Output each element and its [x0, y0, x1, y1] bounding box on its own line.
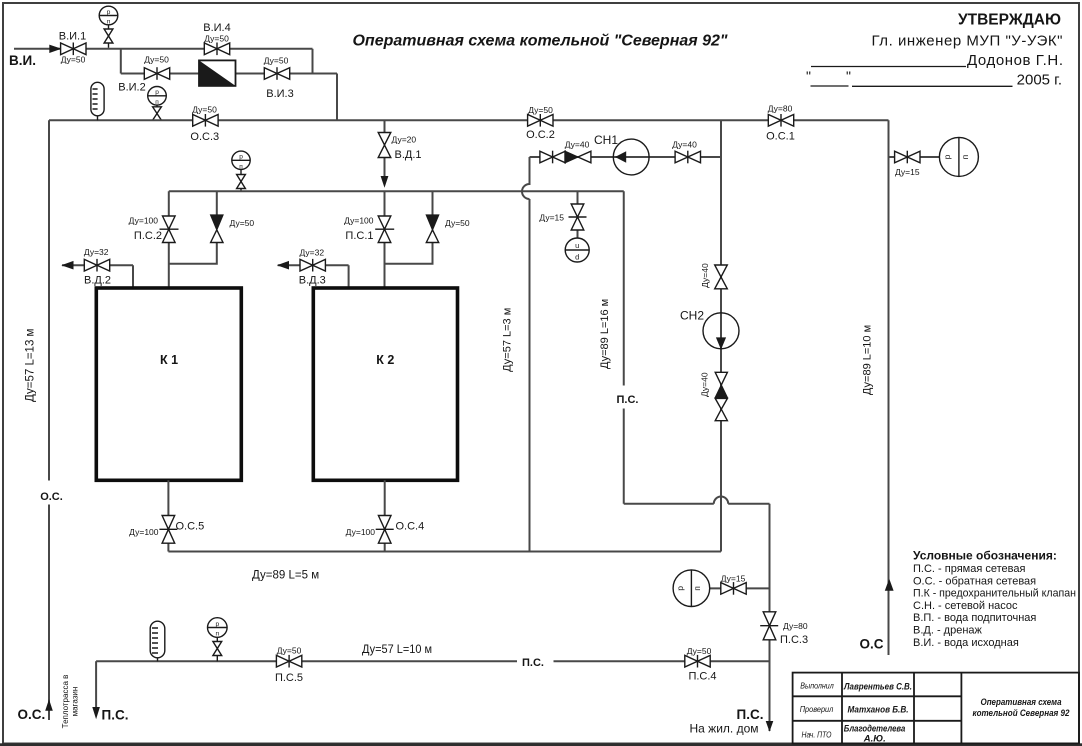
wire П.С. left drop [95, 661, 97, 708]
svg-text:п: п [216, 631, 220, 638]
boiler K2 [313, 288, 457, 480]
svg-text:В.Д. - дренаж: В.Д. - дренаж [913, 625, 983, 637]
pump СН2 [703, 313, 739, 350]
wire СН2 riser [720, 120, 722, 551]
svg-text:П.С. - прямая сетевая: П.С. - прямая сетевая [913, 563, 1025, 575]
svg-text:Ду=50: Ду=50 [277, 646, 302, 656]
svg-text:А.Ю.: А.Ю. [863, 734, 886, 745]
svg-text:Ду=40: Ду=40 [700, 263, 710, 288]
title block [793, 673, 1079, 744]
svg-text:Гл. инженер МУП "У-УЭК": Гл. инженер МУП "У-УЭК" [872, 33, 1063, 50]
svg-text:К 2: К 2 [376, 353, 394, 367]
valve after СН1 [675, 151, 700, 164]
wire boiler top header П.С. [169, 190, 624, 192]
svg-text:Ду=15: Ду=15 [539, 212, 564, 222]
svg-text:О.С: О.С [860, 636, 884, 651]
svg-text:": " [806, 68, 811, 84]
gauge above boiler header [232, 151, 250, 191]
svg-text:Оперативная схема котельной "С: Оперативная схема котельной "Северная 92… [352, 33, 727, 50]
svg-text:В.И.4: В.И.4 [203, 22, 230, 34]
valve Ду=40 below СН2 [715, 398, 727, 420]
svg-text:Условные обозначения:: Условные обозначения: [913, 548, 1057, 562]
svg-text:р: р [215, 621, 219, 628]
valve О.С.4 under K2 [376, 480, 394, 551]
svg-text:Ду=100: Ду=100 [129, 215, 159, 225]
svg-text:Ду=57 L=10 м: Ду=57 L=10 м [362, 642, 432, 656]
gauge u/d [565, 238, 589, 262]
svg-text:В.П. - вода подпиточная: В.П. - вода подпиточная [913, 612, 1036, 624]
svg-text:Ду=50: Ду=50 [687, 646, 712, 656]
flow arrow П.С. left [92, 707, 100, 719]
valve Ду=40 above СН2 [715, 265, 728, 289]
svg-text:р: р [107, 9, 111, 16]
svg-text:Ду=50: Ду=50 [61, 55, 86, 65]
svg-text:u: u [575, 241, 579, 250]
valve П.С.1 on boiler K2 [375, 191, 394, 288]
svg-text:Ду=40: Ду=40 [700, 372, 710, 397]
svg-text:Ду=40: Ду=40 [565, 140, 590, 150]
svg-text:К 1: К 1 [160, 353, 178, 367]
wire П.С. drop with label gap [623, 191, 625, 503]
svg-text:В.Д.3: В.Д.3 [299, 275, 326, 287]
svg-text:Нач. ПТО: Нач. ПТО [802, 730, 832, 739]
svg-text:п: п [107, 19, 111, 26]
flow arrow into В.И.1 [49, 45, 61, 53]
wire right О.С. riser [888, 120, 890, 655]
svg-text:2005 г.: 2005 г. [1017, 72, 1062, 89]
gauge above В.И.1 line [99, 6, 118, 48]
svg-text:Ду=57 L=3 м: Ду=57 L=3 м [502, 308, 514, 372]
svg-text:Ду=89 L=16 м: Ду=89 L=16 м [599, 299, 611, 369]
svg-text:На жил. дом: На жил. дом [690, 722, 759, 736]
svg-text:Ду=50: Ду=50 [192, 104, 217, 114]
svg-text:Ду=100: Ду=100 [346, 527, 376, 537]
wire П.С.3 drop [769, 504, 771, 731]
gauge right (р/п) [939, 137, 978, 176]
svg-text:Ду=100: Ду=100 [129, 527, 159, 537]
flow arrow О.С. right up [885, 579, 894, 591]
svg-text:Проверил: Проверил [800, 705, 834, 714]
svg-text:п: п [960, 154, 970, 159]
valve О.С.2 [528, 114, 553, 127]
wire left О.С. riser (with label gap) [48, 120, 50, 720]
valve Ду=15 right [895, 151, 920, 164]
wire drop x=529.5 with hop over boiler header [522, 157, 529, 552]
svg-text:магазин: магазин [71, 687, 80, 717]
svg-text:П.С.2: П.С.2 [134, 230, 162, 242]
svg-text:Ду=15: Ду=15 [721, 573, 746, 583]
valve П.С.3 [760, 612, 778, 640]
svg-text:В.И.: В.И. [9, 53, 36, 68]
svg-text:УТВЕРЖДАЮ: УТВЕРЖДАЮ [958, 12, 1061, 29]
wire СН1 pump branch [530, 156, 721, 158]
svg-text:Додонов Г.Н.: Додонов Г.Н. [967, 52, 1063, 69]
svg-text:р: р [155, 89, 159, 96]
wire В.И. lower bypass line [121, 73, 337, 75]
svg-text:П.С.: П.С. [617, 394, 639, 406]
svg-text:В.И. - вода исходная: В.И. - вода исходная [913, 637, 1019, 649]
svg-text:СН1: СН1 [594, 133, 618, 147]
wire В.И.4 line drop [312, 49, 314, 74]
safety valve П.К boiler K2 [385, 191, 439, 263]
svg-text:О.С. - обратная сетевая: О.С. - обратная сетевая [913, 575, 1036, 587]
svg-text:Ду=89 L=10 м: Ду=89 L=10 м [862, 325, 874, 395]
svg-text:Выполнил: Выполнил [800, 681, 834, 690]
wire П.С.5 street line (with label gap) [96, 660, 769, 662]
svg-text:": " [846, 68, 851, 84]
svg-text:Ду=80: Ду=80 [768, 104, 793, 114]
svg-text:Ду=50: Ду=50 [230, 218, 255, 228]
svg-text:В.И.1: В.И.1 [59, 31, 86, 43]
check valve below СН2 [715, 372, 727, 397]
gauge on П.С.5 line [208, 618, 228, 662]
svg-text:Ду=50: Ду=50 [445, 218, 470, 228]
check valve before СН1 [565, 151, 591, 163]
valve Ду=15 on gauge branch [721, 582, 746, 595]
svg-text:Ду=80: Ду=80 [783, 621, 808, 631]
svg-text:котельной Северная 92: котельной Северная 92 [973, 708, 1071, 719]
svg-text:Ду=32: Ду=32 [299, 248, 324, 258]
gauge П.С.3 (р/п) [673, 570, 710, 607]
svg-text:Матханов Б.В.: Матханов Б.В. [848, 705, 909, 716]
flow arrow П.С. to town [766, 721, 774, 732]
pump СН1 [613, 139, 649, 175]
valve before СН1 [540, 151, 565, 164]
wire П.С. lower run with hop over СН2 riser [624, 497, 770, 504]
valve П.С.4 [685, 655, 710, 668]
svg-text:Ду=50: Ду=50 [528, 105, 553, 115]
svg-text:р: р [675, 586, 685, 591]
valve В.И.4 [204, 43, 229, 56]
svg-text:П.С.1: П.С.1 [345, 230, 373, 242]
svg-text:п: п [239, 163, 243, 170]
svg-text:О.С.3: О.С.3 [190, 131, 219, 143]
wire В.И. inlet line [14, 48, 313, 50]
filter (mud trap) [199, 60, 236, 86]
valve В.Д.2 drain [61, 259, 133, 289]
boiler K1 [96, 288, 241, 480]
svg-text:п: п [692, 586, 702, 591]
svg-text:п: п [155, 99, 159, 106]
svg-text:П.С.: П.С. [522, 657, 544, 669]
svg-text:Ду=57 L=13 м: Ду=57 L=13 м [25, 328, 37, 402]
svg-text:О.С.: О.С. [18, 707, 46, 722]
thermometer on П.С.5 line [150, 621, 165, 661]
svg-text:В.Д.1: В.Д.1 [395, 149, 422, 161]
svg-text:О.С.2: О.С.2 [526, 129, 555, 141]
wire gauge branch on П.С.3 drop [710, 587, 770, 589]
svg-text:Ду=20: Ду=20 [392, 134, 417, 144]
svg-text:П.К - предохранительный клапан: П.К - предохранительный клапан [913, 588, 1076, 600]
valve Ду=15 instrument drop on header [569, 191, 587, 238]
svg-text:П.С.: П.С. [737, 707, 764, 722]
svg-text:Ду=15: Ду=15 [895, 167, 920, 177]
flow arrow О.С. left up [45, 699, 53, 710]
valve П.С.2 on boiler K1 [160, 191, 179, 288]
svg-text:Ду=50: Ду=50 [264, 56, 289, 66]
svg-text:П.С.5: П.С.5 [275, 672, 303, 684]
svg-text:В.Д.2: В.Д.2 [84, 274, 111, 286]
valve В.Д.3 drain [277, 259, 349, 289]
svg-text:В.И.2: В.И.2 [118, 82, 145, 94]
thermometer on О.С. line [91, 82, 104, 120]
svg-text:СН2: СН2 [680, 309, 704, 323]
wire bottom О.С. header [168, 551, 721, 553]
valve П.С.5 [276, 655, 301, 668]
wire В.И. to О.С. line drop [336, 74, 338, 121]
svg-text:О.С.5: О.С.5 [176, 521, 205, 533]
valve О.С.3 [193, 114, 218, 127]
svg-text:Ду=50: Ду=50 [204, 34, 229, 44]
svg-text:Ду=32: Ду=32 [84, 247, 109, 257]
svg-text:О.С.: О.С. [40, 491, 63, 503]
svg-text:П.С.4: П.С.4 [688, 671, 716, 683]
svg-text:р: р [942, 154, 952, 159]
svg-text:П.С.3: П.С.3 [780, 634, 808, 646]
svg-text:П.С.: П.С. [102, 708, 129, 723]
valve В.И.1 [61, 43, 86, 56]
valve О.С.5 under K1 [159, 480, 177, 551]
svg-text:Оперативная схема: Оперативная схема [981, 697, 1062, 708]
svg-text:О.С.1: О.С.1 [766, 130, 795, 142]
wire right instrument branch [889, 156, 940, 158]
valve О.С.1 [768, 114, 793, 127]
svg-text:Лаврентьев С.В.: Лаврентьев С.В. [843, 682, 912, 693]
wire О.С. main return line [49, 119, 889, 121]
gauge on О.С. line below В.И.2 [148, 87, 167, 121]
svg-text:О.С.4: О.С.4 [396, 521, 425, 533]
svg-text:Ду=40: Ду=40 [672, 140, 697, 150]
wire В.И. branch down at junction [120, 49, 122, 74]
svg-text:В.И.3: В.И.3 [266, 88, 293, 100]
svg-text:Теплотрасса в: Теплотрасса в [61, 675, 70, 729]
svg-text:Ду=50: Ду=50 [144, 55, 169, 65]
svg-text:Ду=100: Ду=100 [344, 215, 374, 225]
svg-text:Ду=89 L=5 м: Ду=89 L=5 м [252, 570, 319, 582]
valve В.И.3 [264, 67, 289, 80]
valve В.И.2 [144, 67, 169, 80]
svg-text:С.Н. - сетевой насос: С.Н. - сетевой насос [913, 600, 1018, 612]
valve В.Д.1 drain on О.С. line [378, 120, 391, 187]
svg-text:d: d [575, 253, 579, 262]
svg-text:р: р [239, 154, 243, 161]
safety valve П.К boiler K1 [169, 191, 223, 263]
